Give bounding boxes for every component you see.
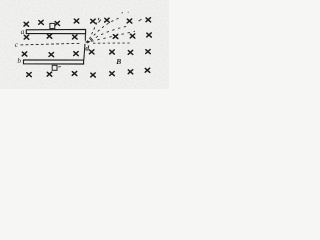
x mark right of square [55,21,60,25]
ray 4 shallowest [91,31,135,41]
center dashed line [21,43,81,45]
minus tick right of square [58,66,61,68]
square below plate b [52,65,57,70]
horizontal dashed continuation [93,42,130,44]
plate b [24,60,84,64]
x marks row 1 [24,22,29,26]
ray 2 45deg [90,18,120,40]
exit velocity arrow [86,41,88,43]
x marks row 4 [27,73,32,77]
x marks row 3 [22,52,27,56]
plate a [26,29,85,33]
stray ray dash marks [99,19,141,22]
scan grain overlay [0,0,169,89]
ray 1 steep [90,16,101,39]
square on plate a [50,23,55,28]
ray 3 shallow [91,26,130,41]
right end wall [84,34,86,60]
stray scan dot [122,12,123,13]
x marks row 2 [24,35,29,39]
